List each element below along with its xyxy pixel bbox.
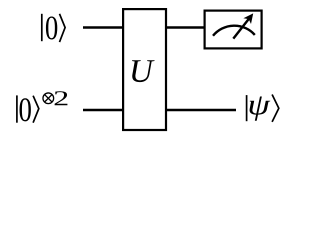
superscript tensor-product otimes symbol xyxy=(43,93,54,104)
meter arc xyxy=(213,26,255,36)
ket |0> right angle bracket xyxy=(60,14,66,42)
meter needle arrowhead xyxy=(243,13,253,24)
gate U label xyxy=(132,60,155,82)
meter needle xyxy=(233,18,249,38)
wire top-left segment xyxy=(83,26,124,29)
wire top-right segment (U to meter) xyxy=(166,26,205,29)
ket |psi> right angle bracket xyxy=(272,95,279,122)
wire bottom-left segment xyxy=(83,109,124,112)
ket |psi> greek psi glyph xyxy=(250,97,271,121)
ket |0> vertical bar (q1) xyxy=(16,95,18,122)
node output label |psi> xyxy=(247,95,279,122)
node q1 input label |0>^otimes2 xyxy=(17,91,68,123)
ket |0> digit 0 xyxy=(46,16,57,39)
superscript exponent 2 xyxy=(55,91,68,105)
ket |0> digit 0 (q1) xyxy=(20,98,31,121)
node q0 input label |0> xyxy=(42,14,65,42)
ket |0> right angle bracket (q1) xyxy=(33,96,39,123)
gate U box xyxy=(123,9,166,130)
ket |psi> vertical bar xyxy=(246,95,248,121)
ket |0> vertical bar xyxy=(41,14,43,41)
measurement meter M1 box xyxy=(205,11,262,49)
wire bottom-right segment (U to psi) xyxy=(166,109,236,112)
